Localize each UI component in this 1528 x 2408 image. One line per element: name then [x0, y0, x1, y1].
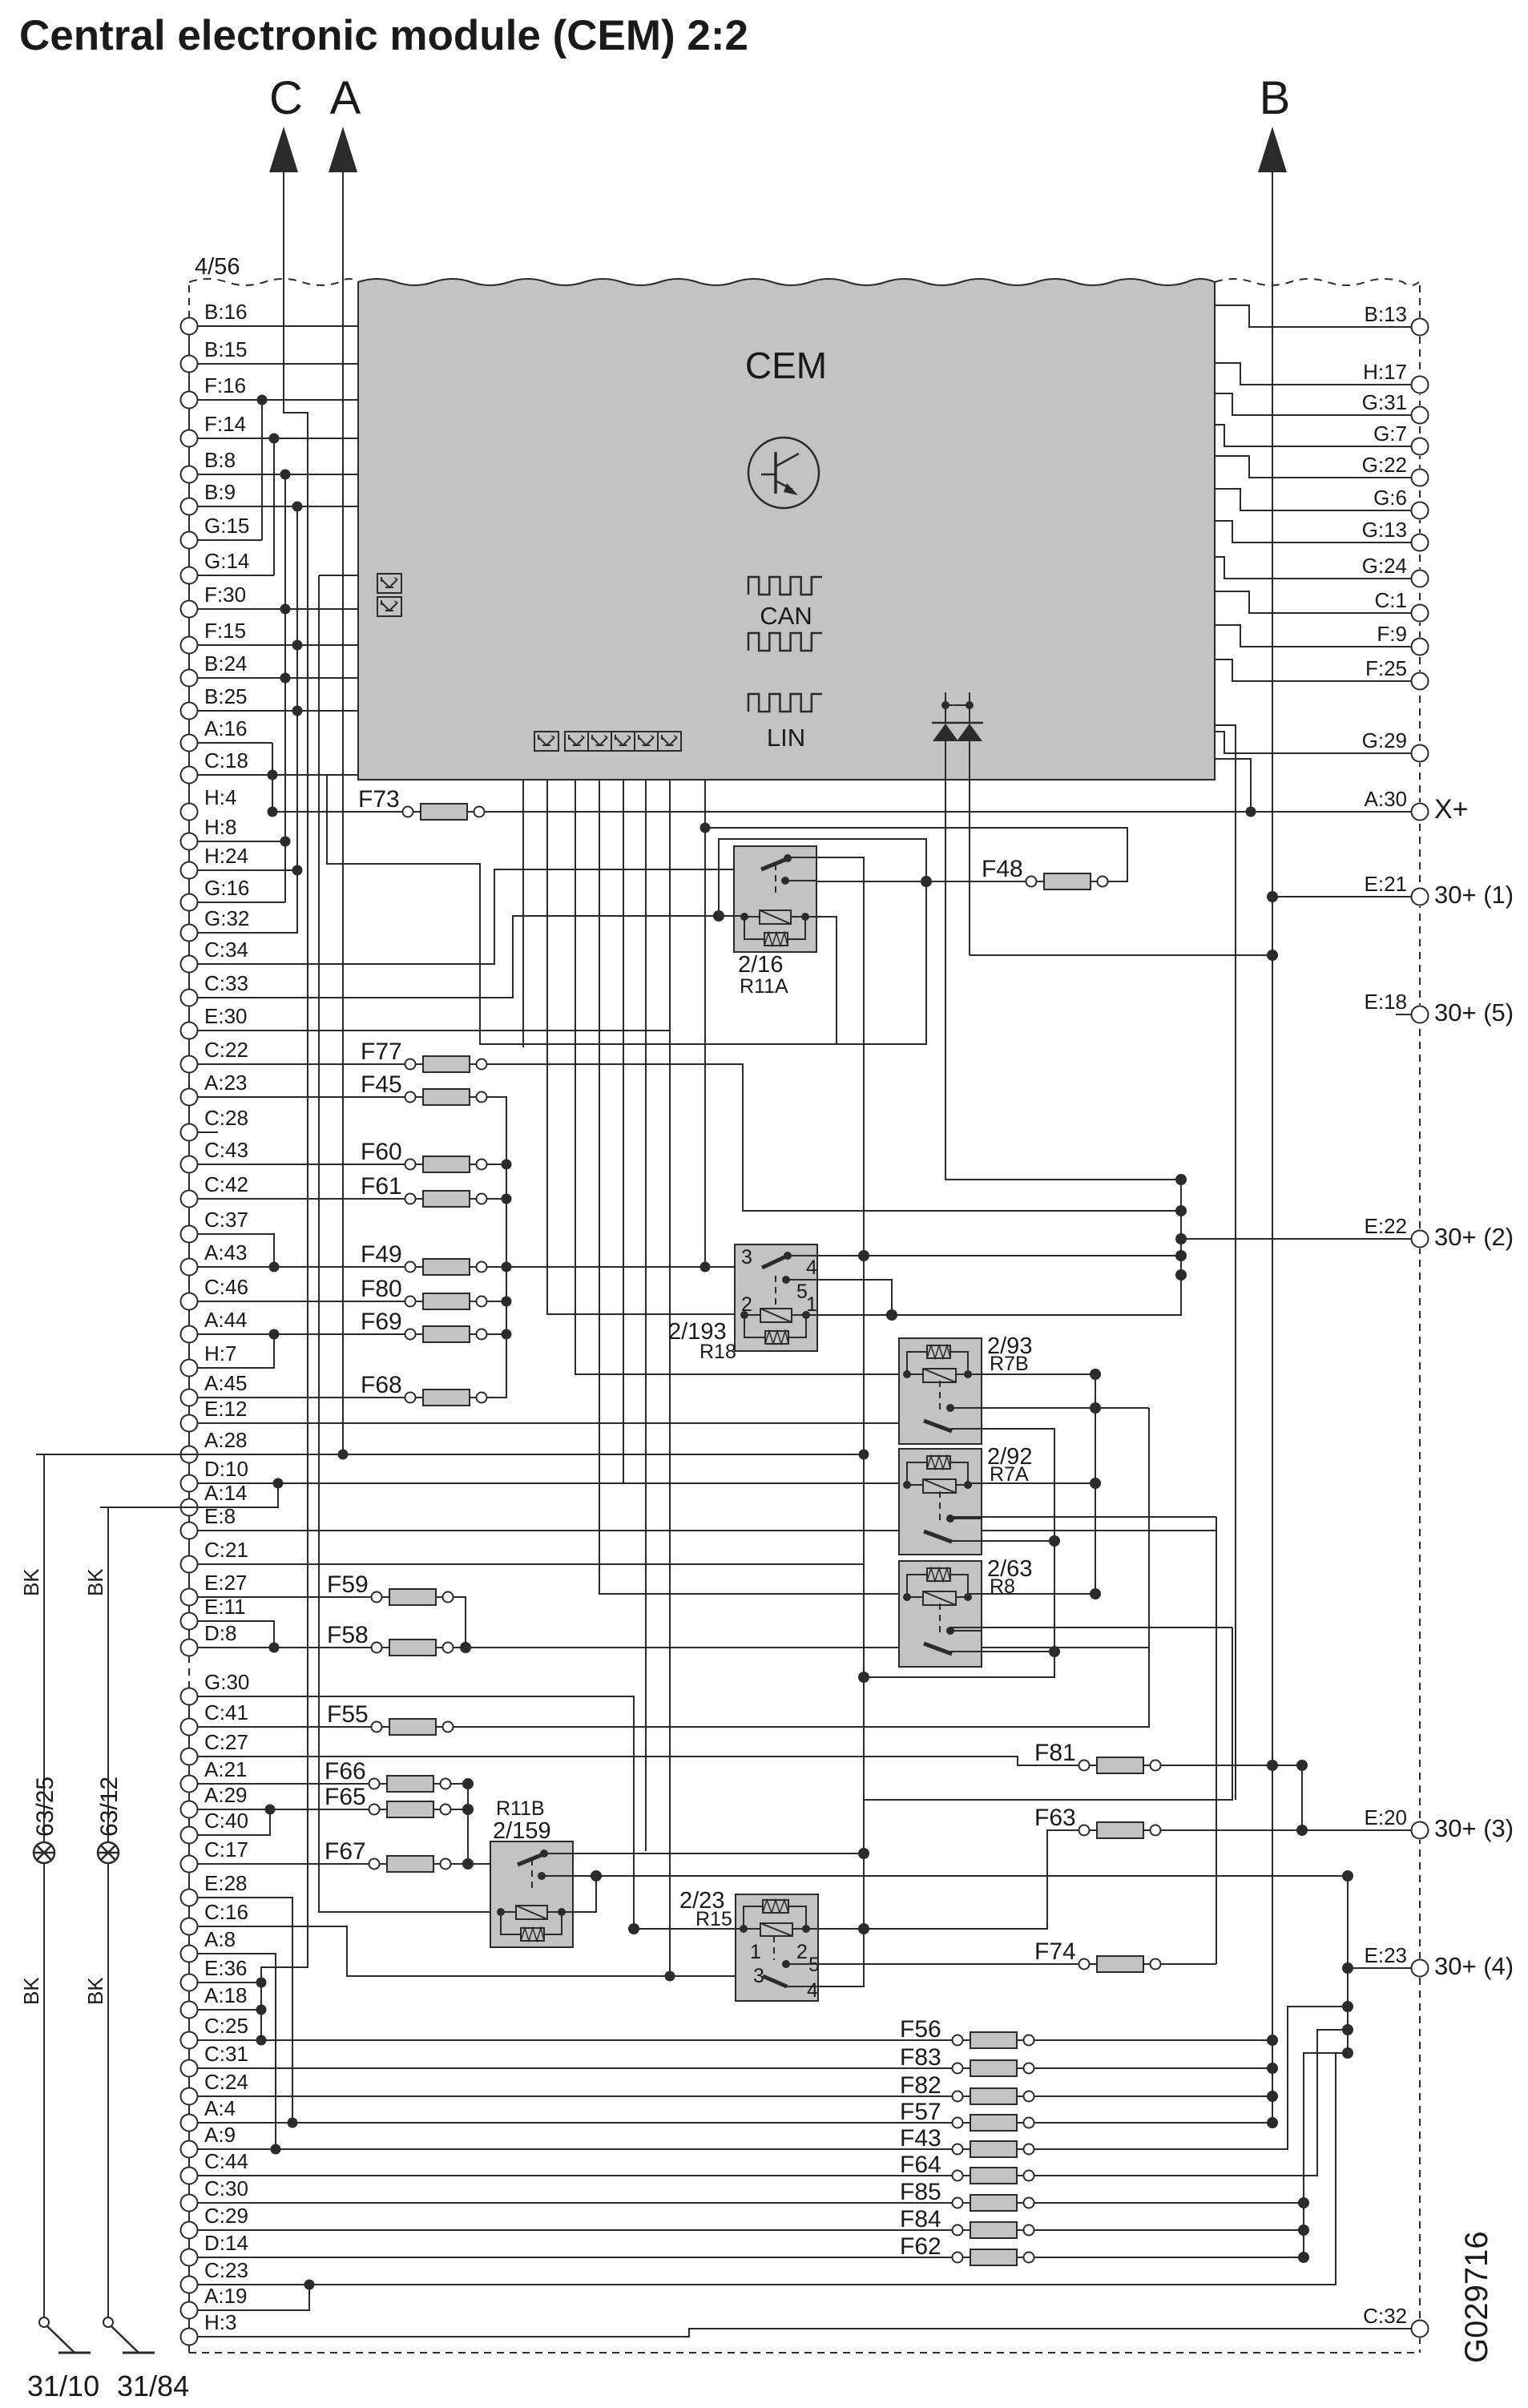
- wire F59 out: [454, 1597, 466, 1648]
- fuse F77: [361, 1039, 487, 1072]
- svg-text:1: 1: [750, 1941, 761, 1963]
- fuse F55: [327, 1701, 454, 1735]
- svg-text:R7B: R7B: [990, 1353, 1029, 1375]
- svg-text:E:30: E:30: [204, 1004, 248, 1028]
- fuse F81: [1034, 1740, 1161, 1773]
- wire F73 to A:30: [485, 811, 1412, 813]
- svg-text:B:15: B:15: [204, 337, 248, 361]
- net B:8-G:16 vertical: [284, 474, 286, 902]
- svg-text:R15: R15: [695, 1908, 732, 1930]
- svg-text:LIN: LIN: [767, 724, 805, 752]
- svg-text:G:31: G:31: [1362, 390, 1407, 414]
- svg-text:C: C: [269, 72, 303, 124]
- svg-text:H:7: H:7: [204, 1341, 236, 1365]
- wire 2/23 pin4 out: [787, 1929, 864, 1986]
- wire B:25 to CEM: [198, 710, 359, 712]
- svg-text:C:40: C:40: [204, 1809, 248, 1833]
- svg-text:C:32: C:32: [1363, 2304, 1407, 2328]
- svg-text:G:29: G:29: [1362, 728, 1407, 752]
- wire C:24 to F82: [198, 2095, 953, 2097]
- svg-text:G:24: G:24: [1362, 554, 1407, 578]
- wire A:14 left: [108, 1507, 181, 1508]
- torn edge dashed right: [1215, 279, 1419, 285]
- junction C:25: [256, 2035, 267, 2046]
- wire F82 to B line: [1034, 2095, 1273, 2097]
- wire E:30 row: [198, 1030, 671, 1031]
- junction F60 common: [502, 1160, 512, 1170]
- svg-text:Central electronic module (CEM: Central electronic module (CEM) 2:2: [19, 12, 748, 59]
- wire F83 to B line: [1034, 2067, 1273, 2069]
- wire C:30 to F85: [198, 2202, 953, 2204]
- junction H:24: [292, 865, 303, 876]
- wire F:15 to CEM: [198, 644, 359, 646]
- svg-text:C:18: C:18: [204, 748, 248, 772]
- wire F48 row to fuse: [816, 881, 1026, 882]
- relay 2/159 R11B: [490, 1841, 573, 1947]
- wire ground column 31/84: [107, 1507, 109, 2322]
- wire F74 out: [1161, 1963, 1217, 1965]
- fuse F43: [900, 2125, 1034, 2157]
- wire F65 out: [451, 1809, 469, 1810]
- svg-text:F63: F63: [1034, 1805, 1076, 1831]
- wire 2/159 pin2 out: [542, 1875, 596, 1877]
- svg-text:CEM: CEM: [745, 345, 827, 386]
- junction 2/92 coil right: [1090, 1478, 1101, 1489]
- svg-text:F84: F84: [900, 2206, 941, 2233]
- svg-text:30+ (2): 30+ (2): [1434, 1223, 1514, 1251]
- torn edge dashed left: [189, 279, 358, 285]
- relay 2/193 R18: [735, 1244, 817, 1351]
- net 1367 vertical: [1095, 1374, 1096, 1594]
- wire C:22 to F77: [198, 1063, 405, 1065]
- svg-text:E:23: E:23: [1365, 1943, 1408, 1967]
- svg-text:C:22: C:22: [204, 1038, 248, 1062]
- wire F62 out: [1034, 2257, 1304, 2258]
- svg-text:F62: F62: [900, 2233, 941, 2260]
- fuse F85: [900, 2179, 1034, 2211]
- wire F77 out: [487, 1064, 1182, 1211]
- fuse F83: [900, 2044, 1034, 2076]
- wire C:29 to F84: [198, 2229, 953, 2231]
- junction 2/63 coil right: [1090, 1588, 1101, 1599]
- svg-text:F82: F82: [900, 2072, 941, 2099]
- junction A:29 C:40: [265, 1805, 276, 1815]
- wire C:37 jog: [198, 1234, 275, 1267]
- svg-text:F61: F61: [361, 1173, 402, 1200]
- net F55 riser: [454, 1408, 1150, 1727]
- wire F67 out: [451, 1863, 491, 1865]
- wire F43 out: [1034, 2007, 1349, 2149]
- wire H:24 row: [198, 869, 299, 871]
- transistor symbol U1: [748, 438, 819, 508]
- wire 2/63 coil right: [968, 1593, 1095, 1595]
- svg-text:R18: R18: [699, 1341, 736, 1363]
- svg-text:B:9: B:9: [204, 480, 236, 504]
- junction E23 riser 2533: [1342, 2024, 1353, 2035]
- wire C:21 row: [198, 1563, 865, 1565]
- wire 2/193 pin4 link: [786, 1280, 892, 1315]
- svg-text:F83: F83: [900, 2044, 941, 2071]
- svg-text:C:29: C:29: [204, 2204, 248, 2228]
- junction F:30: [280, 604, 291, 615]
- svg-text:E:21: E:21: [1365, 872, 1408, 896]
- wire E:18 stub: [1396, 1014, 1412, 1015]
- wire 2/23 pin1 feed: [634, 1928, 744, 1930]
- wire X+ feed from CEM: [1215, 759, 1251, 812]
- svg-text:G:30: G:30: [204, 1670, 249, 1694]
- svg-text:C:41: C:41: [204, 1700, 248, 1724]
- splice 63/12: [98, 1842, 119, 1863]
- junction F56 B line: [1267, 2035, 1278, 2046]
- net A:16-H:4 vertical: [272, 743, 273, 812]
- svg-text:F66: F66: [325, 1758, 366, 1785]
- svg-text:A:19: A:19: [204, 2284, 248, 2308]
- wire F66 out: [451, 1783, 469, 1785]
- wire C:41 to F55: [198, 1726, 372, 1728]
- wire C:28 stub: [198, 1131, 219, 1133]
- wire diode right leg: [969, 741, 970, 780]
- svg-text:F69: F69: [361, 1309, 402, 1335]
- wire C:33 row: [198, 916, 745, 998]
- wire A:21 to F66: [198, 1783, 369, 1785]
- wire 2/159 coil right link: [561, 1876, 596, 1912]
- junction F81 riser: [1296, 1760, 1308, 1771]
- wire E:8 row: [198, 1530, 1217, 1531]
- wire C line: [261, 172, 308, 2040]
- svg-text:B:13: B:13: [1365, 302, 1408, 326]
- junction X+ row: [1246, 807, 1256, 817]
- svg-text:BK: BK: [83, 1568, 107, 1596]
- left column link lines: [188, 334, 190, 2329]
- fuse F61: [361, 1173, 487, 1207]
- svg-text:A:44: A:44: [204, 1308, 248, 1332]
- junction sw bus trunk: [858, 1672, 869, 1683]
- CEM module body: [358, 279, 1215, 780]
- junction F65 common: [462, 1804, 474, 1815]
- LIN square wave: [748, 694, 822, 712]
- junction trunk8 F49 row: [700, 1262, 711, 1273]
- svg-text:G:32: G:32: [204, 906, 249, 930]
- svg-text:31/84: 31/84: [117, 2370, 189, 2402]
- svg-text:B:25: B:25: [204, 684, 248, 708]
- svg-text:63/25: 63/25: [32, 1777, 58, 1837]
- svg-text:F:15: F:15: [204, 619, 246, 643]
- junction 2/93 mid: [1090, 1402, 1101, 1414]
- junction E:28 A:4: [288, 2118, 298, 2128]
- junction F:14: [269, 434, 280, 444]
- fuse F59: [327, 1571, 454, 1605]
- svg-text:2/159: 2/159: [493, 1818, 551, 1844]
- junction F:15: [292, 640, 303, 651]
- wire 2/92 coil right: [968, 1482, 1095, 1484]
- wire G:14 row left: [198, 575, 275, 576]
- svg-text:G:15: G:15: [204, 514, 249, 538]
- wire diode to 1192: [969, 780, 970, 955]
- junction E23 riser 2562: [1342, 2047, 1353, 2059]
- junction B:25: [292, 706, 303, 716]
- svg-text:A:21: A:21: [204, 1757, 248, 1781]
- net right long drop 1: [1215, 725, 1236, 1800]
- svg-text:4: 4: [807, 1979, 818, 2002]
- junction E22 chain 1591: [1175, 1269, 1187, 1281]
- wire A:14 jog: [100, 1483, 278, 1507]
- wire F85 out: [1034, 2202, 1304, 2204]
- junction C:23 A:19: [304, 2280, 315, 2290]
- CEM pin trunk 7: [669, 780, 671, 1976]
- svg-text:E:22: E:22: [1365, 1214, 1408, 1238]
- svg-text:F56: F56: [900, 2016, 941, 2043]
- CAN square wave lower: [748, 633, 822, 651]
- wire C:23 row: [198, 2053, 1336, 2285]
- wire F49 out: [487, 1266, 507, 1268]
- fuse F80: [361, 1276, 487, 1309]
- junction B:24: [280, 673, 291, 684]
- CEM pin trunk 4: [599, 780, 907, 1594]
- svg-text:F60: F60: [361, 1139, 402, 1165]
- svg-text:R11B: R11B: [496, 1797, 545, 1820]
- fuse F64: [900, 2152, 1034, 2184]
- wire A:8 row: [198, 1954, 276, 2149]
- wire G:32 row: [198, 932, 299, 934]
- fuse F60: [361, 1139, 487, 1172]
- junction H:4: [268, 807, 278, 817]
- net E:23 riser: [1347, 1876, 1349, 2053]
- wire C:18 to CEM: [198, 774, 359, 776]
- wire F56 to B line: [1034, 2039, 1273, 2041]
- svg-text:G:6: G:6: [1373, 486, 1407, 510]
- wire E:23 row: [1348, 1967, 1412, 1969]
- svg-text:F55: F55: [327, 1701, 369, 1728]
- wire F:16 to CEM: [198, 399, 359, 401]
- svg-text:A:4: A:4: [204, 2096, 236, 2120]
- net F74 riser: [1216, 1517, 1217, 1964]
- svg-text:C:44: C:44: [204, 2149, 248, 2173]
- CEM pin trunk 5: [623, 780, 624, 1483]
- junction F82 B line: [1267, 2091, 1278, 2102]
- svg-text:30+ (3): 30+ (3): [1434, 1814, 1514, 1842]
- junction B:9: [292, 502, 303, 512]
- svg-text:R11A: R11A: [740, 975, 788, 998]
- wire pin2 to E:23: [596, 1875, 1348, 1877]
- svg-text:C:17: C:17: [204, 1837, 248, 1861]
- splice 63/25: [34, 1842, 54, 1863]
- fuse F73: [358, 786, 485, 820]
- wire H:4 to F73: [272, 811, 403, 813]
- svg-text:E:11: E:11: [204, 1595, 246, 1619]
- svg-text:A:29: A:29: [204, 1783, 248, 1807]
- wire C:46 to F80: [198, 1301, 405, 1302]
- svg-text:G:14: G:14: [204, 549, 249, 573]
- relay 2/93 R7B: [899, 1338, 982, 1444]
- wire 2/92 mid pin: [950, 1516, 1216, 1518]
- wire 2/63 sw out: [950, 1651, 1054, 1652]
- left column dashed gap: [188, 1656, 190, 1688]
- wire G:14 CEM stub: [319, 575, 358, 576]
- svg-text:D:14: D:14: [204, 2231, 248, 2255]
- svg-text:F58: F58: [327, 1622, 369, 1648]
- svg-text:E:12: E:12: [204, 1397, 248, 1421]
- protection diode box D1: [377, 574, 401, 593]
- svg-text:C:46: C:46: [204, 1275, 248, 1299]
- wire B line: [1272, 172, 1273, 2123]
- svg-text:D:10: D:10: [204, 1457, 248, 1481]
- junction E22 chain 1511: [1175, 1205, 1187, 1216]
- svg-text:E:20: E:20: [1365, 1805, 1408, 1829]
- svg-text:E:18: E:18: [1365, 990, 1408, 1014]
- junction F80 common: [502, 1297, 512, 1307]
- fuse F56: [900, 2016, 1034, 2048]
- wire 2/159 sw out: [544, 1853, 864, 1854]
- svg-text:C:25: C:25: [204, 2014, 248, 2038]
- wire 2/16 coil right out: [805, 917, 837, 1044]
- junction C:18: [268, 770, 278, 780]
- CEM pin trunk 2: [547, 780, 744, 1314]
- svg-text:F77: F77: [361, 1039, 402, 1065]
- wire C:43 to F60: [198, 1164, 405, 1165]
- junction E:36: [256, 1978, 267, 1988]
- svg-text:A:18: A:18: [204, 1983, 248, 2007]
- left column bottom link: [188, 2345, 190, 2353]
- svg-text:F:25: F:25: [1365, 656, 1407, 680]
- svg-text:A:28: A:28: [204, 1428, 248, 1452]
- wire 2/93 sw out: [864, 1429, 1054, 1677]
- relay 2/16 R11A: [734, 846, 816, 952]
- net CEM to 2/159 coil: [319, 575, 500, 1912]
- protection diode box D3: [534, 732, 558, 751]
- junction F58 out: [460, 1642, 471, 1653]
- wire A:9 to F43: [198, 2148, 953, 2150]
- svg-text:F67: F67: [325, 1838, 366, 1865]
- junction F81 B line: [1267, 1760, 1278, 1771]
- protection diode box D8: [658, 732, 681, 751]
- svg-text:C:33: C:33: [204, 971, 248, 995]
- wire F48 up loop: [705, 828, 1127, 881]
- svg-text:B:8: B:8: [204, 448, 236, 472]
- wire 2/92 sw out: [950, 1540, 1054, 1542]
- svg-text:A:16: A:16: [204, 716, 248, 740]
- wire 2/93 mid pin: [950, 1407, 1149, 1409]
- junction trunk8 F48 loop: [700, 823, 711, 833]
- wire 2/193 pin1 to E:22 chain: [806, 1180, 1181, 1315]
- junction F84 riser: [1298, 2224, 1309, 2236]
- wire 2/193 sw out: [788, 1255, 1181, 1256]
- net F66-F67 common: [467, 1784, 469, 1864]
- fuse F84: [900, 2206, 1034, 2238]
- fuse F69: [361, 1309, 487, 1342]
- svg-text:BK: BK: [83, 1977, 107, 2005]
- svg-text:A:45: A:45: [204, 1371, 248, 1395]
- svg-text:B:24: B:24: [204, 651, 248, 676]
- fuse F67: [325, 1838, 451, 1872]
- svg-text:CAN: CAN: [760, 602, 812, 630]
- svg-text:30+ (4): 30+ (4): [1434, 1952, 1514, 1980]
- wire A:18 row: [198, 2009, 262, 2011]
- junction trunk7 2/23 arm: [665, 1971, 675, 1982]
- protection diode box D7: [635, 732, 658, 751]
- svg-text:C:37: C:37: [204, 1208, 248, 1232]
- svg-text:E:28: E:28: [204, 1871, 248, 1895]
- protection diode box D4: [565, 732, 588, 751]
- wire 2/16 coil left: [719, 915, 744, 917]
- wire E:27 to F59: [198, 1596, 372, 1598]
- bottom dashed boundary: [189, 2352, 1420, 2354]
- wire C:44 to F64: [198, 2175, 953, 2176]
- wire B:8 to CEM: [198, 474, 359, 475]
- svg-text:F85: F85: [900, 2179, 941, 2205]
- CEM pin trunk 3: [575, 780, 907, 1374]
- wire F80 out: [487, 1301, 507, 1302]
- junction E:11 D:8: [269, 1643, 280, 1653]
- protection diode box D5: [588, 732, 611, 751]
- svg-text:D:8: D:8: [204, 1621, 236, 1645]
- svg-text:G:22: G:22: [1362, 453, 1407, 477]
- junction 2/16 coil feed: [713, 910, 724, 922]
- CEM right pin staircase wires: [1215, 305, 1412, 753]
- svg-text:H:8: H:8: [204, 815, 236, 839]
- junction sw bus 2/92: [1049, 1535, 1060, 1547]
- CEM pin trunk 1: [522, 780, 524, 1047]
- junction B:8: [280, 470, 291, 480]
- junction F85 riser: [1298, 2197, 1309, 2208]
- wire B:16 to CEM: [198, 325, 359, 327]
- junction E23 riser 2504: [1342, 2001, 1353, 2012]
- wire C:34 row: [198, 869, 735, 964]
- svg-text:F45: F45: [361, 1071, 402, 1098]
- junction sw out trunk: [858, 1250, 869, 1261]
- svg-text:BK: BK: [19, 1568, 43, 1596]
- wire D:14 to F62: [198, 2257, 953, 2258]
- svg-text:C:27: C:27: [204, 1730, 248, 1754]
- svg-text:E:36: E:36: [204, 1956, 248, 1980]
- fuse F63: [1034, 1805, 1161, 1838]
- wire A line: [342, 172, 344, 1454]
- wire H:8 row: [198, 841, 286, 842]
- CEM pin trunk 6: [645, 780, 647, 1851]
- svg-text:C:28: C:28: [204, 1106, 248, 1130]
- right connector pins: [1362, 302, 1514, 2338]
- fuse F68: [361, 1372, 487, 1406]
- svg-text:F80: F80: [361, 1276, 402, 1302]
- junction 1192 B line: [1267, 950, 1278, 961]
- junction C:37 on A:43: [269, 1262, 280, 1273]
- wire 1192 row: [970, 954, 1272, 956]
- svg-text:2/16: 2/16: [738, 952, 783, 978]
- wire F64 out: [1034, 2030, 1349, 2176]
- wire F58 row right: [454, 1647, 1150, 1648]
- ground 31/10: [39, 2317, 91, 2353]
- fuse F49: [361, 1241, 487, 1275]
- wire B:15 to CEM: [198, 363, 359, 365]
- junction 2/93 coil right: [1090, 1369, 1101, 1380]
- svg-text:3: 3: [753, 1965, 764, 1987]
- wire E:22 row: [1181, 1238, 1412, 1240]
- svg-text:B: B: [1260, 72, 1291, 124]
- junction F69 common: [502, 1329, 512, 1340]
- svg-text:R7A: R7A: [990, 1463, 1029, 1486]
- svg-text:F57: F57: [900, 2099, 941, 2125]
- wire F57 to B line: [1034, 2122, 1273, 2124]
- junction F67 common: [462, 1858, 474, 1870]
- svg-text:3: 3: [741, 1246, 752, 1269]
- protection diode box D6: [611, 732, 635, 751]
- relay 2/23 R15: [736, 1894, 820, 2002]
- arrow A to other page: [329, 72, 361, 172]
- ground 31/84: [103, 2317, 155, 2353]
- svg-text:F:30: F:30: [204, 583, 246, 607]
- net F45-F68 common vertical: [487, 1097, 507, 1398]
- svg-text:63/12: 63/12: [96, 1777, 123, 1837]
- junction A:8 A:9: [271, 2144, 281, 2155]
